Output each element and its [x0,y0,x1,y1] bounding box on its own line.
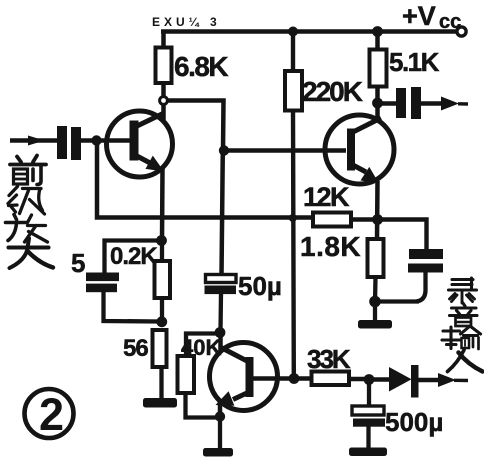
resistor 6.8K [156,48,172,84]
node rail-5.1K [372,26,383,37]
node Q3 base junction [289,373,300,384]
wire 5.1K bottom lead [375,87,380,106]
svg-text:2: 2 [39,389,64,440]
capacitor 50u [205,275,237,295]
capacitor emitter bypass [408,249,443,273]
wire to output cap [379,101,396,105]
resistor 33K [312,372,350,386]
wire 220K vertical top lead [291,33,295,72]
svg-text:56: 56 [123,335,148,362]
wire 500u bottom lead [366,426,370,449]
wire Q3 base [253,376,292,380]
wire output right [421,101,443,105]
wire 12K right lead [351,217,375,221]
resistor 0.2K [155,261,171,298]
node Q1 base junction [91,135,101,145]
wire output tail [458,102,468,106]
wire 40K bottom to emitter node [186,393,218,418]
svg-text:500µ: 500µ [385,407,443,437]
resistor 12K [313,213,351,227]
wire cap 5 bottom lead [104,292,160,322]
output arrow [441,97,459,111]
wire node A to bus [168,101,224,152]
wire 56 to ground [159,367,163,399]
wire Q3 emitter lead [218,402,223,418]
node Q3 emitter junction [215,411,225,421]
node A (open circle at Q1 collector) [160,97,168,105]
text luyin shuru (recording input) [442,278,483,372]
node bus-Q2 base [219,145,229,155]
capacitor 5 [86,273,119,293]
wire diode cathode lead [419,378,443,382]
node 1.8K bottom junction [369,296,381,308]
wire 6.8K top lead [161,30,166,49]
+Vcc label [402,1,461,33]
svg-text:5.1K: 5.1K [389,47,440,77]
wire bypass cap hook [416,272,426,302]
figure number 2 [25,389,74,440]
wire to ground G3 [373,303,377,321]
svg-text:6.8K: 6.8K [174,51,228,82]
ground G1 [143,398,177,408]
resistor 220K [285,71,302,111]
wire input [10,138,57,142]
svg-text:0.2K: 0.2K [110,243,158,270]
wire 33K left lead [294,376,312,380]
diode D1 [389,365,419,398]
+Vcc terminal [457,27,466,36]
text qianjifangda (pre-stage amp) [6,156,54,269]
wire Q2 base [224,148,346,152]
wire Q3 collector lead [218,331,223,350]
ground G3 [358,320,392,329]
wire Q1 collector lead [161,104,166,120]
node Q1 emitter junction [156,235,167,246]
wire corner to cap 5 [105,241,162,274]
svg-text:EXU¼ 3: EXU¼ 3 [152,15,221,29]
wire recorder tail [454,379,468,383]
wire Q2 collector lead [375,103,380,118]
capacitor 500u [352,406,385,427]
node crossing blob at 220K line [289,214,297,222]
resistor 56 [153,330,167,367]
wire 0.2K top lead [160,243,164,262]
wire 1.8K node [375,299,420,303]
ground G4 [349,448,387,457]
node Q3 collector junction [215,327,226,338]
svg-text:220K: 220K [302,76,363,107]
wire to bypass cap [379,220,427,251]
wire 0.2K bottom lead [160,298,164,323]
wire 5.1K top lead [375,33,380,50]
ground G2 [203,448,233,457]
svg-text:50µ: 50µ [238,271,282,301]
node Q2 collector junction [372,98,383,109]
capacitor output coupling [396,87,421,119]
node diode junction [364,374,375,385]
wire cap to Q1 base [81,138,130,142]
node rail-220K [288,27,298,37]
node Q2 emitter junction [372,214,383,225]
wire 33K right lead [349,377,367,381]
transistor Q1 [107,111,173,177]
wire 50u bottom lead [218,294,223,332]
svg-text:+V: +V [402,1,436,31]
wire Q1 emitter lead [160,169,165,241]
node 56 junction [156,316,167,327]
wire 6.8K bottom lead [161,83,166,97]
transistor Q3 [210,343,278,411]
wire diode anode lead [369,377,390,381]
wire feedback down and right to 12K [97,143,313,218]
svg-text:cc: cc [439,11,461,33]
wire bus down to 50u [222,150,223,276]
wire 1.8K bottom lead [373,277,378,303]
svg-text:1.8K: 1.8K [300,231,361,262]
wire 220K down to Q3 base [291,111,296,378]
wire 500u top lead [367,381,371,407]
svg-text:12K: 12K [303,182,350,212]
input arrow [28,136,45,146]
wire Q3 emitter to ground [218,418,222,449]
resistor 1.8K [368,239,384,277]
wire Vcc rail [161,29,457,34]
svg-text:5: 5 [71,248,85,278]
wire Q2 emitter to 1.8K [375,181,380,240]
output arrow to recorder [438,373,456,387]
wire bracket to 40K top [186,334,218,358]
transistor Q2 [325,115,394,184]
resistor 5.1K [370,50,387,87]
capacitor input coupling [57,126,81,160]
resistor 40K [178,356,195,393]
